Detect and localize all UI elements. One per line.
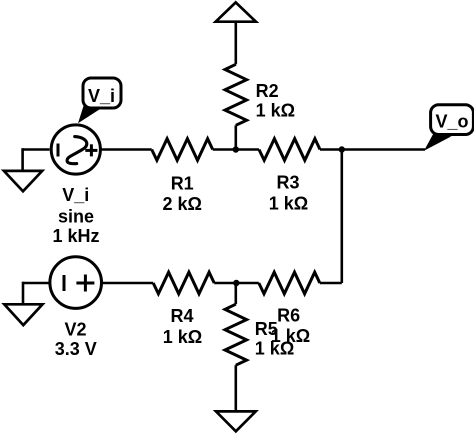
- svg-text:V_i: V_i: [88, 86, 115, 106]
- svg-text:2 kΩ: 2 kΩ: [162, 194, 201, 214]
- svg-text:1 kΩ: 1 kΩ: [269, 193, 308, 213]
- svg-text:V_o: V_o: [435, 112, 468, 132]
- svg-text:1 kΩ: 1 kΩ: [163, 327, 202, 347]
- svg-text:R1: R1: [171, 173, 194, 193]
- svg-text:R6: R6: [277, 305, 300, 325]
- svg-text:1 kΩ: 1 kΩ: [255, 339, 294, 359]
- svg-text:R5: R5: [255, 319, 278, 339]
- svg-text:1 kHz: 1 kHz: [52, 226, 99, 246]
- svg-text:V_i: V_i: [62, 185, 89, 205]
- svg-text:V2: V2: [64, 319, 86, 339]
- svg-text:R4: R4: [170, 306, 193, 326]
- svg-text:3.3 V: 3.3 V: [55, 339, 97, 359]
- svg-text:1 kΩ: 1 kΩ: [256, 100, 295, 120]
- svg-text:R2: R2: [256, 81, 279, 101]
- svg-text:sine: sine: [58, 207, 94, 227]
- svg-text:R3: R3: [276, 173, 299, 193]
